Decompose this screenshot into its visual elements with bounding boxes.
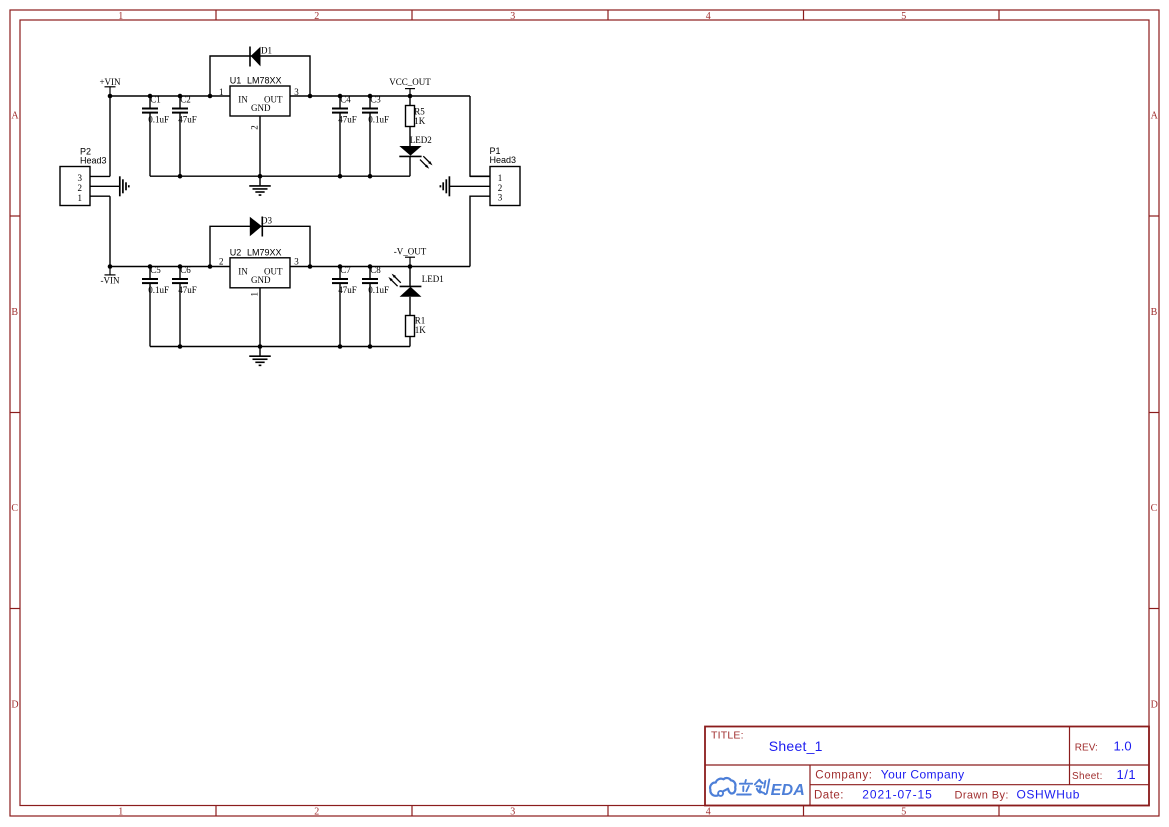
GND pin wire — [259, 288, 261, 347]
svg-text:Date:: Date: — [814, 790, 844, 802]
svg-text:2021-07-15: 2021-07-15 — [862, 788, 932, 802]
svg-text:0.1uF: 0.1uF — [148, 285, 169, 295]
svg-text:47uF: 47uF — [178, 285, 197, 295]
junction dots top rail — [108, 94, 413, 99]
wire LED1 to R1 — [409, 297, 411, 316]
svg-text:3: 3 — [510, 11, 515, 22]
wire P2 pin 3 stub — [90, 175, 110, 177]
svg-text:B: B — [11, 307, 18, 318]
svg-text:Your Company: Your Company — [881, 768, 965, 782]
svg-text:3: 3 — [498, 193, 503, 203]
wire +VIN down to P2 pin 3 — [109, 96, 111, 176]
diode D1 — [250, 46, 272, 67]
wire P2 pin 1 stub — [90, 195, 110, 197]
svg-text:VCC_OUT: VCC_OUT — [389, 77, 431, 87]
svg-text:1: 1 — [118, 11, 123, 22]
svg-text:GND: GND — [251, 275, 271, 285]
svg-text:U2: U2 — [230, 247, 242, 257]
net flag +VIN — [99, 77, 121, 96]
svg-text:LM78XX: LM78XX — [247, 76, 282, 86]
svg-text:D1: D1 — [261, 46, 272, 56]
LED2 light arrows — [420, 156, 433, 169]
svg-text:OSHWHub: OSHWHub — [1017, 788, 1081, 802]
voltage regulator U1 LM78XX — [219, 76, 299, 177]
svg-text:0.1uF: 0.1uF — [148, 115, 169, 125]
svg-text:Drawn By:: Drawn By: — [955, 790, 1009, 802]
svg-text:A: A — [1151, 111, 1159, 122]
svg-text:1K: 1K — [414, 116, 426, 126]
resistor R5 — [406, 106, 426, 127]
pin 1 stub — [470, 175, 490, 177]
svg-text:A: A — [11, 111, 19, 122]
svg-text:-VIN: -VIN — [101, 276, 120, 286]
svg-text:Sheet_1: Sheet_1 — [769, 738, 823, 754]
wire U1 pin 3 to VCC_OUT rail — [290, 95, 470, 97]
junction dots top ground rail — [178, 174, 373, 179]
ground (P2 pin 2) — [120, 176, 129, 196]
LED1 light arrows — [388, 274, 400, 287]
svg-text:2: 2 — [78, 183, 83, 193]
wire P1 pin 2 to ground — [450, 185, 490, 187]
wire P2 pin 1 down to -VIN rail — [109, 196, 111, 266]
svg-text:+VIN: +VIN — [99, 77, 121, 87]
wire -V rail up to P1 pin 3 — [470, 196, 490, 266]
resistor R5 top lead — [409, 96, 411, 106]
capacitor C1 — [142, 95, 169, 177]
svg-text:Head3: Head3 — [490, 155, 517, 165]
GND pin wire — [259, 116, 261, 176]
junction dots -VIN rail — [108, 264, 413, 269]
svg-text:2: 2 — [314, 11, 319, 22]
svg-text:D: D — [11, 699, 18, 710]
svg-text:-V_OUT: -V_OUT — [394, 247, 427, 257]
svg-text:3: 3 — [78, 173, 83, 183]
wire P2 pin 2 to ground — [90, 185, 120, 187]
svg-text:U1: U1 — [230, 76, 242, 86]
wire D3 bypass loop — [210, 226, 310, 266]
svg-text:47uF: 47uF — [338, 285, 357, 295]
svg-text:2: 2 — [249, 125, 259, 130]
svg-text:1: 1 — [249, 292, 259, 297]
wire +VIN rail to U1 pin 1 — [110, 95, 230, 97]
svg-text:47uF: 47uF — [338, 115, 357, 125]
diode D3 — [250, 216, 273, 237]
net flag -VIN — [101, 267, 120, 286]
svg-text:Head3: Head3 — [80, 156, 107, 166]
svg-text:1: 1 — [118, 807, 123, 818]
svg-text:LED2: LED2 — [410, 135, 432, 145]
svg-text:Sheet:: Sheet: — [1072, 771, 1103, 782]
svg-text:C: C — [11, 503, 18, 514]
wire top circuit ground rail — [150, 175, 410, 177]
svg-text:1/1: 1/1 — [1117, 767, 1137, 782]
voltage regulator U2 LM79XX — [219, 247, 299, 346]
svg-text:3: 3 — [294, 87, 299, 97]
svg-text:1: 1 — [219, 87, 224, 97]
wire D1 bypass loop — [210, 56, 310, 96]
svg-text:5: 5 — [901, 11, 906, 22]
wire U2 pin 3 to -V_OUT rail — [290, 266, 470, 268]
svg-text:GND: GND — [251, 103, 271, 113]
LED LED2 — [399, 135, 432, 176]
svg-text:R1: R1 — [415, 316, 426, 326]
svg-text:47uF: 47uF — [178, 115, 197, 125]
net flag VCC_OUT — [389, 77, 431, 96]
wire -VIN rail to U2 pin 2 — [110, 266, 230, 268]
capacitor C3 — [362, 95, 389, 177]
capacitor C6 — [172, 265, 197, 346]
svg-text:2: 2 — [219, 257, 224, 267]
svg-text:1: 1 — [78, 193, 83, 203]
net flag -V_OUT — [394, 247, 427, 267]
svg-text:2: 2 — [314, 807, 319, 818]
wire bottom circuit ground rail — [150, 346, 410, 348]
svg-text:3: 3 — [294, 257, 299, 267]
svg-text:IN: IN — [238, 266, 248, 276]
capacitor C8 — [362, 265, 389, 346]
svg-text:4: 4 — [706, 11, 711, 22]
LED LED1 — [388, 267, 443, 297]
svg-text:D3: D3 — [261, 216, 272, 226]
svg-text:C: C — [1151, 503, 1158, 514]
svg-text:R5: R5 — [414, 107, 425, 117]
capacitor C2 — [172, 95, 197, 177]
svg-text:LM79XX: LM79XX — [247, 247, 282, 257]
R1 bottom lead — [409, 337, 411, 347]
svg-text:1: 1 — [498, 173, 503, 183]
resistor R1 — [406, 316, 427, 337]
capacitor C5 — [142, 265, 169, 346]
svg-text:Company:: Company: — [815, 770, 872, 782]
svg-text:LED1: LED1 — [422, 274, 444, 284]
connector P1 Head3 — [470, 146, 520, 206]
svg-text:IN: IN — [238, 95, 248, 105]
svg-text:1K: 1K — [415, 325, 427, 335]
wire VCC rail drop to P1 pin 1 — [470, 96, 490, 176]
wire R5 to LED2 — [409, 127, 411, 147]
capacitor C4 — [332, 95, 357, 177]
svg-text:0.1uF: 0.1uF — [368, 115, 389, 125]
svg-text:4: 4 — [706, 807, 711, 818]
capacitor C7 — [332, 265, 357, 346]
svg-text:B: B — [1151, 307, 1158, 318]
svg-text:D: D — [1151, 699, 1158, 710]
ground (U1 GND) — [249, 176, 271, 195]
connector P2 Head3 — [60, 146, 107, 205]
svg-text:2: 2 — [498, 183, 503, 193]
svg-text:TITLE:: TITLE: — [711, 730, 744, 742]
ground (P1 pin 2) — [440, 176, 449, 196]
svg-text:0.1uF: 0.1uF — [368, 285, 389, 295]
junction dots bottom ground rail — [178, 344, 373, 349]
svg-text:EDA: EDA — [771, 782, 805, 799]
svg-text:3: 3 — [510, 807, 515, 818]
svg-text:REV:: REV: — [1075, 743, 1098, 754]
ground (U2 GND) — [249, 347, 271, 366]
svg-text:1.0: 1.0 — [1114, 739, 1132, 754]
svg-text:5: 5 — [901, 807, 906, 818]
